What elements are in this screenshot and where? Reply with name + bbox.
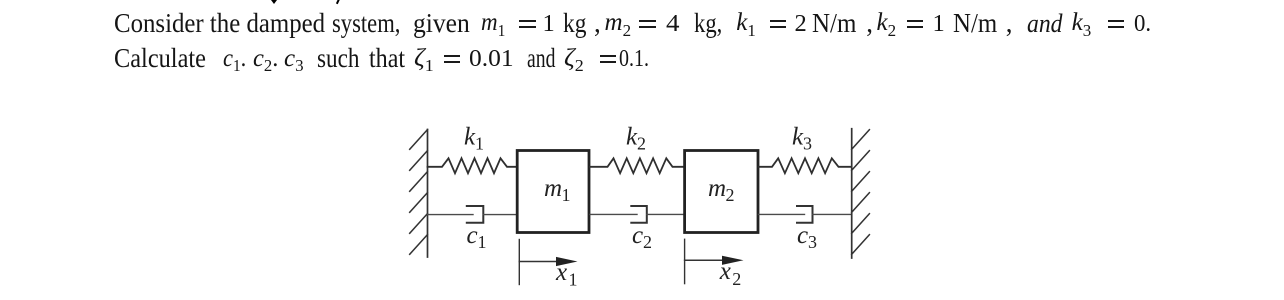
spring k2 <box>590 158 684 173</box>
label m2 <box>708 175 735 205</box>
mass m1 <box>517 151 589 233</box>
svg-text:3: 3 <box>803 134 812 154</box>
svg-text:2: 2 <box>732 269 741 289</box>
damper c3 <box>759 206 852 223</box>
svg-text:1: 1 <box>478 232 487 252</box>
label k2 <box>626 124 646 154</box>
svg-text:2: 2 <box>726 185 735 205</box>
x2 arrow <box>685 256 744 265</box>
cropped heading fragment left mark <box>271 0 277 4</box>
svg-text:c: c <box>632 222 643 249</box>
left wall hatching <box>410 130 428 255</box>
right wall line <box>851 129 853 258</box>
svg-text:2: 2 <box>637 134 646 154</box>
svg-text:1: 1 <box>475 134 484 154</box>
label c1 <box>467 222 487 252</box>
label k1 <box>464 124 484 154</box>
x1 arrow <box>519 257 577 266</box>
svg-text:c: c <box>797 222 808 249</box>
x1 reference line <box>518 240 520 285</box>
label k3 <box>792 124 812 154</box>
left wall line <box>427 130 429 258</box>
label c3 <box>797 222 817 252</box>
svg-text:c: c <box>467 222 478 249</box>
spring k1 <box>428 158 517 173</box>
svg-text:x: x <box>719 258 731 285</box>
svg-text:x: x <box>555 259 567 286</box>
svg-text:1: 1 <box>562 185 571 205</box>
problem text line 1 <box>114 8 325 39</box>
damper c2 <box>590 206 684 223</box>
damper c1 <box>428 206 517 223</box>
label x2 <box>719 258 742 289</box>
x2 reference line <box>684 239 686 283</box>
cropped heading fragment right tick <box>336 0 340 4</box>
svg-text:m: m <box>544 175 562 202</box>
label m1 <box>544 175 571 205</box>
label c2 <box>632 222 652 252</box>
mass m2 <box>685 151 758 233</box>
svg-text:1: 1 <box>569 269 578 289</box>
spring k3 <box>759 158 852 173</box>
label x1 <box>555 259 578 290</box>
svg-text:m: m <box>708 175 726 202</box>
svg-text:3: 3 <box>808 232 817 252</box>
problem text line 2 <box>114 43 206 74</box>
svg-text:2: 2 <box>643 232 652 252</box>
right wall hatching <box>852 130 870 255</box>
